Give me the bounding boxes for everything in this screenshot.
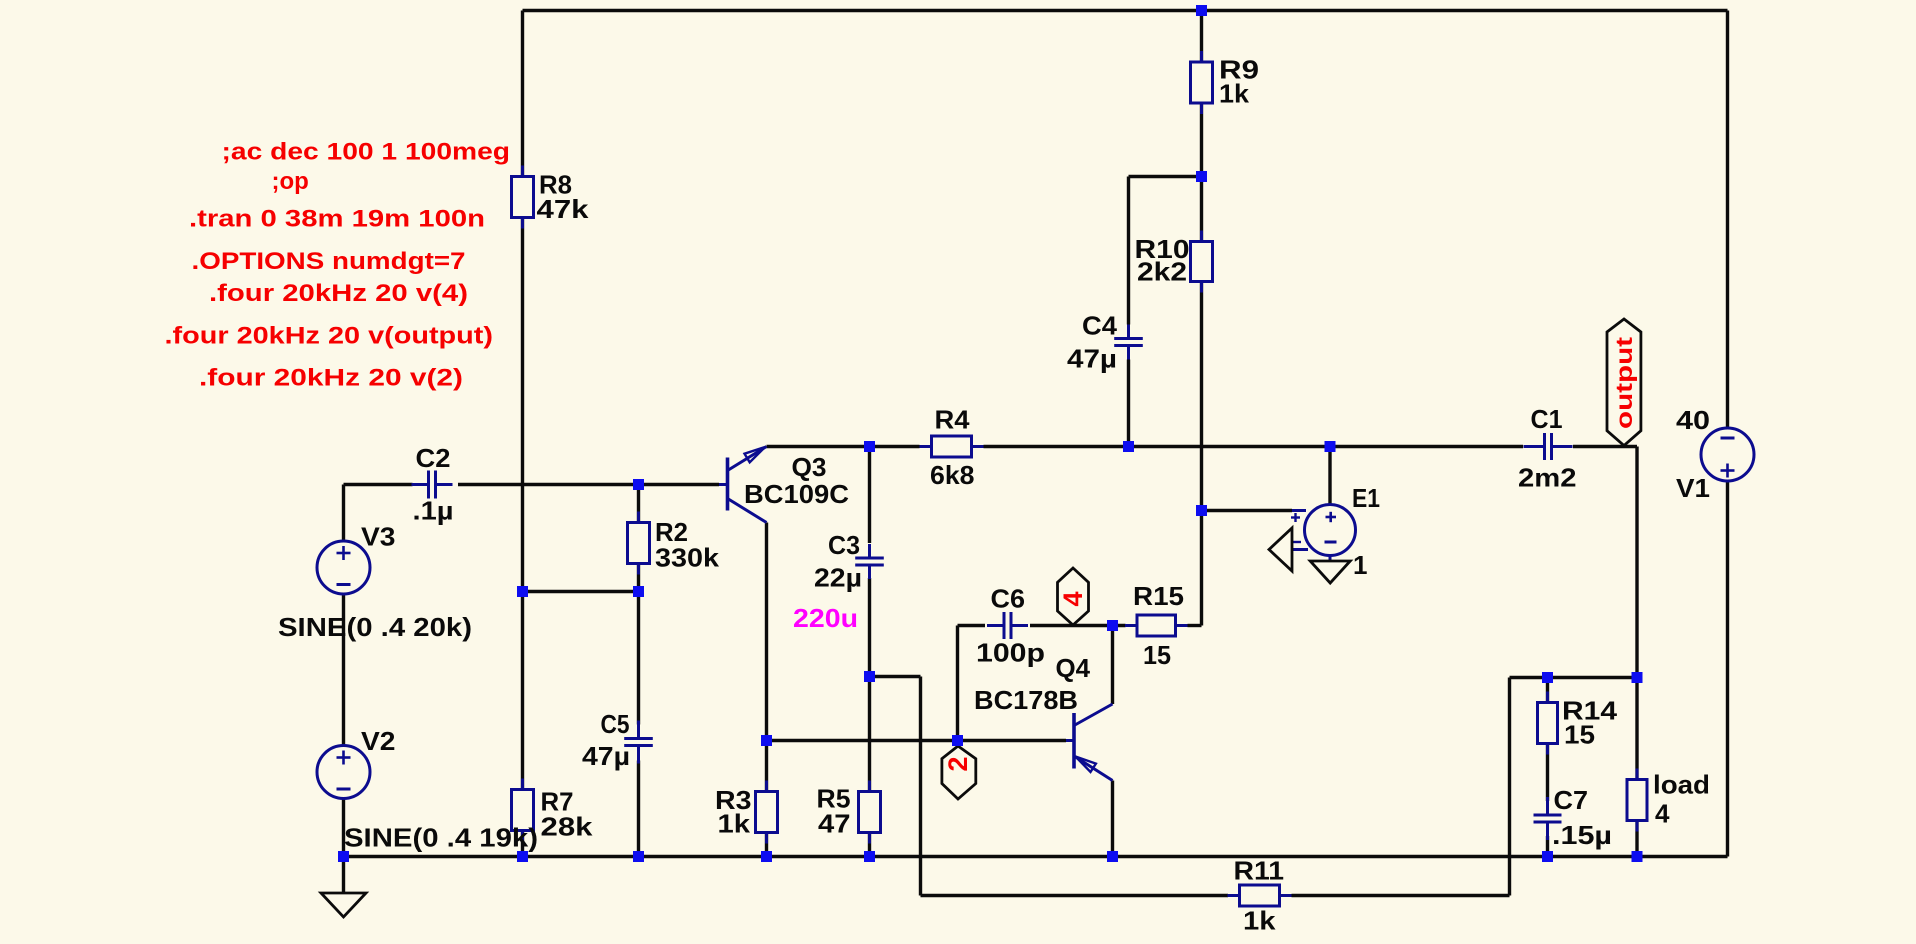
junction R7 / bottom rail xyxy=(517,851,528,862)
junction E1 / R4 wire xyxy=(1325,441,1336,452)
svg-text:.OPTIONS numdgt=7: .OPTIONS numdgt=7 xyxy=(192,248,466,275)
svg-text:E1: E1 xyxy=(1352,483,1380,513)
wire C1 corner down xyxy=(1635,447,1638,678)
wire E1 input row xyxy=(1202,509,1293,512)
wire E1 top xyxy=(1328,447,1331,506)
svg-text:C6: C6 xyxy=(991,584,1026,614)
transistor Q4 (BC178B) xyxy=(1066,704,1113,781)
svg-text:output: output xyxy=(1611,337,1637,429)
wire C1 to corner xyxy=(1573,445,1637,448)
wire R14 to C7 xyxy=(1546,744,1549,802)
wire R15 corner up xyxy=(1200,511,1203,626)
voltage source V3 xyxy=(317,541,370,594)
ground at E1 negative input (points left) xyxy=(1269,528,1292,571)
junction Q4 emitter / bottom rail xyxy=(1107,851,1118,862)
wire V1 bottom xyxy=(1726,481,1729,857)
wire C2 left xyxy=(344,483,413,486)
svg-text:C2: C2 xyxy=(416,443,451,473)
svg-text:40: 40 xyxy=(1676,405,1710,435)
resistor R5 xyxy=(859,781,881,844)
wire C4 branch upper xyxy=(1127,177,1130,325)
wire down to R11 row xyxy=(919,677,922,896)
wire R2 link to C5 xyxy=(637,592,640,725)
wire load top xyxy=(1635,678,1638,780)
capacitor C6 xyxy=(987,612,1028,639)
wire R2 bottom xyxy=(637,564,640,592)
svg-text:1: 1 xyxy=(1353,550,1367,580)
wire R14 top xyxy=(1546,678,1549,703)
wire V3 top stub xyxy=(342,485,345,542)
svg-text:1k: 1k xyxy=(1219,79,1250,109)
wire C2 right to Q3 base xyxy=(458,483,719,486)
capacitor C2 xyxy=(412,471,453,499)
voltage source V2 xyxy=(317,746,370,799)
junction R9-R10 / C4 xyxy=(1196,171,1207,182)
transistor Q3 (BC109C) xyxy=(719,447,767,523)
junction R14 top xyxy=(1542,672,1553,683)
svg-text:;op: ;op xyxy=(272,168,309,195)
svg-text:C5: C5 xyxy=(601,709,630,739)
resistor R10 xyxy=(1191,231,1213,293)
node 2 flag xyxy=(942,746,976,799)
svg-text:V3: V3 xyxy=(361,522,396,552)
svg-text:100p: 100p xyxy=(976,638,1045,668)
wire R3 bottom xyxy=(765,833,768,857)
wire R7 to bottom rail xyxy=(521,831,524,857)
wire R2 top xyxy=(637,485,640,523)
junction load top / C1 xyxy=(1632,672,1643,683)
svg-text:47µ: 47µ xyxy=(582,741,630,771)
svg-text:6k8: 6k8 xyxy=(930,460,975,490)
svg-text:C1: C1 xyxy=(1531,404,1563,434)
capacitor C1 xyxy=(1524,433,1573,460)
svg-text:V2: V2 xyxy=(361,726,396,756)
ground at V2 bottom xyxy=(321,893,366,917)
wire C7 bottom xyxy=(1546,836,1549,857)
wire R8 to R7 xyxy=(521,218,524,790)
capacitor C4 xyxy=(1114,325,1143,360)
wire top rail xyxy=(523,9,1728,12)
wire Q3 emitter down xyxy=(765,523,768,741)
junction load / bottom rail xyxy=(1632,851,1643,862)
svg-text:28k: 28k xyxy=(541,812,594,842)
svg-text:330k: 330k xyxy=(655,543,720,573)
wire Q4 collector up xyxy=(1111,626,1114,705)
wire R8 to R2 link xyxy=(523,590,639,593)
svg-text:22µ: 22µ xyxy=(814,563,862,593)
junction C6 / Q4 collector / R15 xyxy=(1107,620,1118,631)
junction Q3 emitter / node2 xyxy=(761,735,772,746)
wire R11 right xyxy=(1292,894,1510,897)
svg-text:.four 20kHz 20 v(4): .four 20kHz 20 v(4) xyxy=(209,280,468,307)
wire junction to R10 xyxy=(1200,177,1203,242)
svg-text:BC178B: BC178B xyxy=(974,685,1078,715)
junction C5 / bottom rail xyxy=(633,851,644,862)
capacitor C7 xyxy=(1534,797,1562,840)
svg-text:Q3: Q3 xyxy=(792,452,827,482)
svg-text:SINE(0 .4 20k): SINE(0 .4 20k) xyxy=(278,612,472,642)
svg-text:load: load xyxy=(1653,770,1710,800)
wire R14-load top link xyxy=(1510,676,1638,679)
junction R3 / bottom rail xyxy=(761,851,772,862)
junction V2 / bottom rail xyxy=(338,851,349,862)
junction R10 / E1 input xyxy=(1196,505,1207,516)
resistor R9 xyxy=(1191,51,1213,114)
dependent source E1 (VCVS) xyxy=(1291,505,1356,562)
svg-text:2: 2 xyxy=(943,756,973,771)
svg-text:C4: C4 xyxy=(1082,311,1118,341)
wire node2 to C6 vertical xyxy=(956,626,959,741)
capacitor C5 xyxy=(624,721,653,764)
wire C3 node right xyxy=(870,675,921,678)
junction C2 wire / R2 xyxy=(633,479,644,490)
wire R9 top xyxy=(1200,11,1203,63)
svg-text:.15µ: .15µ xyxy=(1552,820,1612,850)
wire V2 to bottom rail xyxy=(342,798,345,857)
svg-text:15: 15 xyxy=(1564,720,1595,750)
wire ground stub xyxy=(342,857,345,894)
svg-text:4: 4 xyxy=(1058,591,1088,606)
output net flag xyxy=(1607,319,1641,446)
wire R15 right corner xyxy=(1188,624,1202,627)
junction top rail / R9 xyxy=(1196,5,1207,16)
wire V1 top xyxy=(1726,11,1729,429)
resistor R11 xyxy=(1228,885,1292,906)
svg-text:.1µ: .1µ xyxy=(413,496,454,526)
ground below E1 xyxy=(1310,561,1350,583)
svg-text:2m2: 2m2 xyxy=(1518,463,1577,493)
svg-text:.tran 0 38m 19m 100n: .tran 0 38m 19m 100n xyxy=(189,206,485,233)
svg-text:1k: 1k xyxy=(718,809,751,839)
resistor R15 xyxy=(1125,615,1188,636)
wire V3 to V2 xyxy=(342,594,345,747)
svg-text:.four 20kHz 20 v(output): .four 20kHz 20 v(output) xyxy=(165,323,494,350)
junction R8 / link xyxy=(517,586,528,597)
svg-text:.four 20kHz 20 v(2): .four 20kHz 20 v(2) xyxy=(199,365,463,392)
wire R11 up xyxy=(1508,678,1511,896)
svg-text:47k: 47k xyxy=(537,194,590,224)
resistor load xyxy=(1627,769,1647,832)
wire R4 to C1 xyxy=(984,445,1524,448)
wire bottom rail xyxy=(344,855,1728,858)
wire node2 horizontal xyxy=(767,739,1067,742)
voltage source V1 xyxy=(1701,428,1754,481)
wire left vertical (R8 branch top) xyxy=(521,11,524,178)
wire to R11 left xyxy=(921,894,1229,897)
wire Q4 emitter down xyxy=(1111,781,1114,857)
svg-text:R4: R4 xyxy=(935,405,971,435)
wire C4 top link xyxy=(1129,175,1202,178)
svg-text:;ac dec 100 1 100meg: ;ac dec 100 1 100meg xyxy=(222,139,511,166)
wire R10 bottom run xyxy=(1200,282,1203,511)
wire C3 top xyxy=(868,447,871,544)
wire C6 right to R15 xyxy=(1030,624,1126,627)
svg-text:1k: 1k xyxy=(1243,906,1276,936)
svg-text:SINE(0 .4 19k): SINE(0 .4 19k) xyxy=(344,823,538,853)
capacitor C3 xyxy=(855,544,884,579)
resistor R4 xyxy=(920,436,984,457)
svg-text:C7: C7 xyxy=(1554,785,1589,815)
junction R2 / link xyxy=(633,586,644,597)
svg-text:R15: R15 xyxy=(1133,581,1184,611)
svg-text:V1: V1 xyxy=(1676,473,1710,503)
resistor R2 xyxy=(628,512,650,575)
resistor R7 xyxy=(512,779,534,842)
junction R5 / bottom rail xyxy=(864,851,875,862)
resistor R8 xyxy=(512,166,534,229)
wire R3 top xyxy=(765,741,768,792)
resistor R14 xyxy=(1538,692,1558,755)
resistor R3 xyxy=(756,781,778,844)
wire load bottom xyxy=(1635,821,1638,857)
svg-text:220u: 220u xyxy=(793,603,858,633)
node 4 flag xyxy=(1058,568,1089,625)
svg-text:R11: R11 xyxy=(1234,856,1285,886)
wire C5 to bottom rail xyxy=(637,761,640,857)
svg-text:BC109C: BC109C xyxy=(744,479,849,509)
svg-text:C3: C3 xyxy=(828,530,860,560)
svg-text:47: 47 xyxy=(818,809,851,839)
wire C3 bottom to R5 xyxy=(868,578,871,792)
junction C3-R5 / R11 branch xyxy=(864,671,875,682)
wire C4 branch lower xyxy=(1127,360,1130,447)
svg-text:15: 15 xyxy=(1143,640,1171,670)
junction C3 / R4 wire xyxy=(864,441,875,452)
wire Q3 collector to R4 xyxy=(767,445,920,448)
svg-text:47µ: 47µ xyxy=(1067,344,1117,374)
junction node 2 flag xyxy=(952,735,963,746)
wire R5 bottom xyxy=(868,833,871,857)
wire C6 left xyxy=(958,624,986,627)
svg-text:2k2: 2k2 xyxy=(1137,257,1187,287)
svg-text:Q4: Q4 xyxy=(1056,653,1091,683)
svg-text:4: 4 xyxy=(1655,799,1670,829)
wire R9 to junction xyxy=(1200,103,1203,177)
junction C4 / R4 wire xyxy=(1123,441,1134,452)
junction C7 / bottom rail xyxy=(1542,851,1553,862)
